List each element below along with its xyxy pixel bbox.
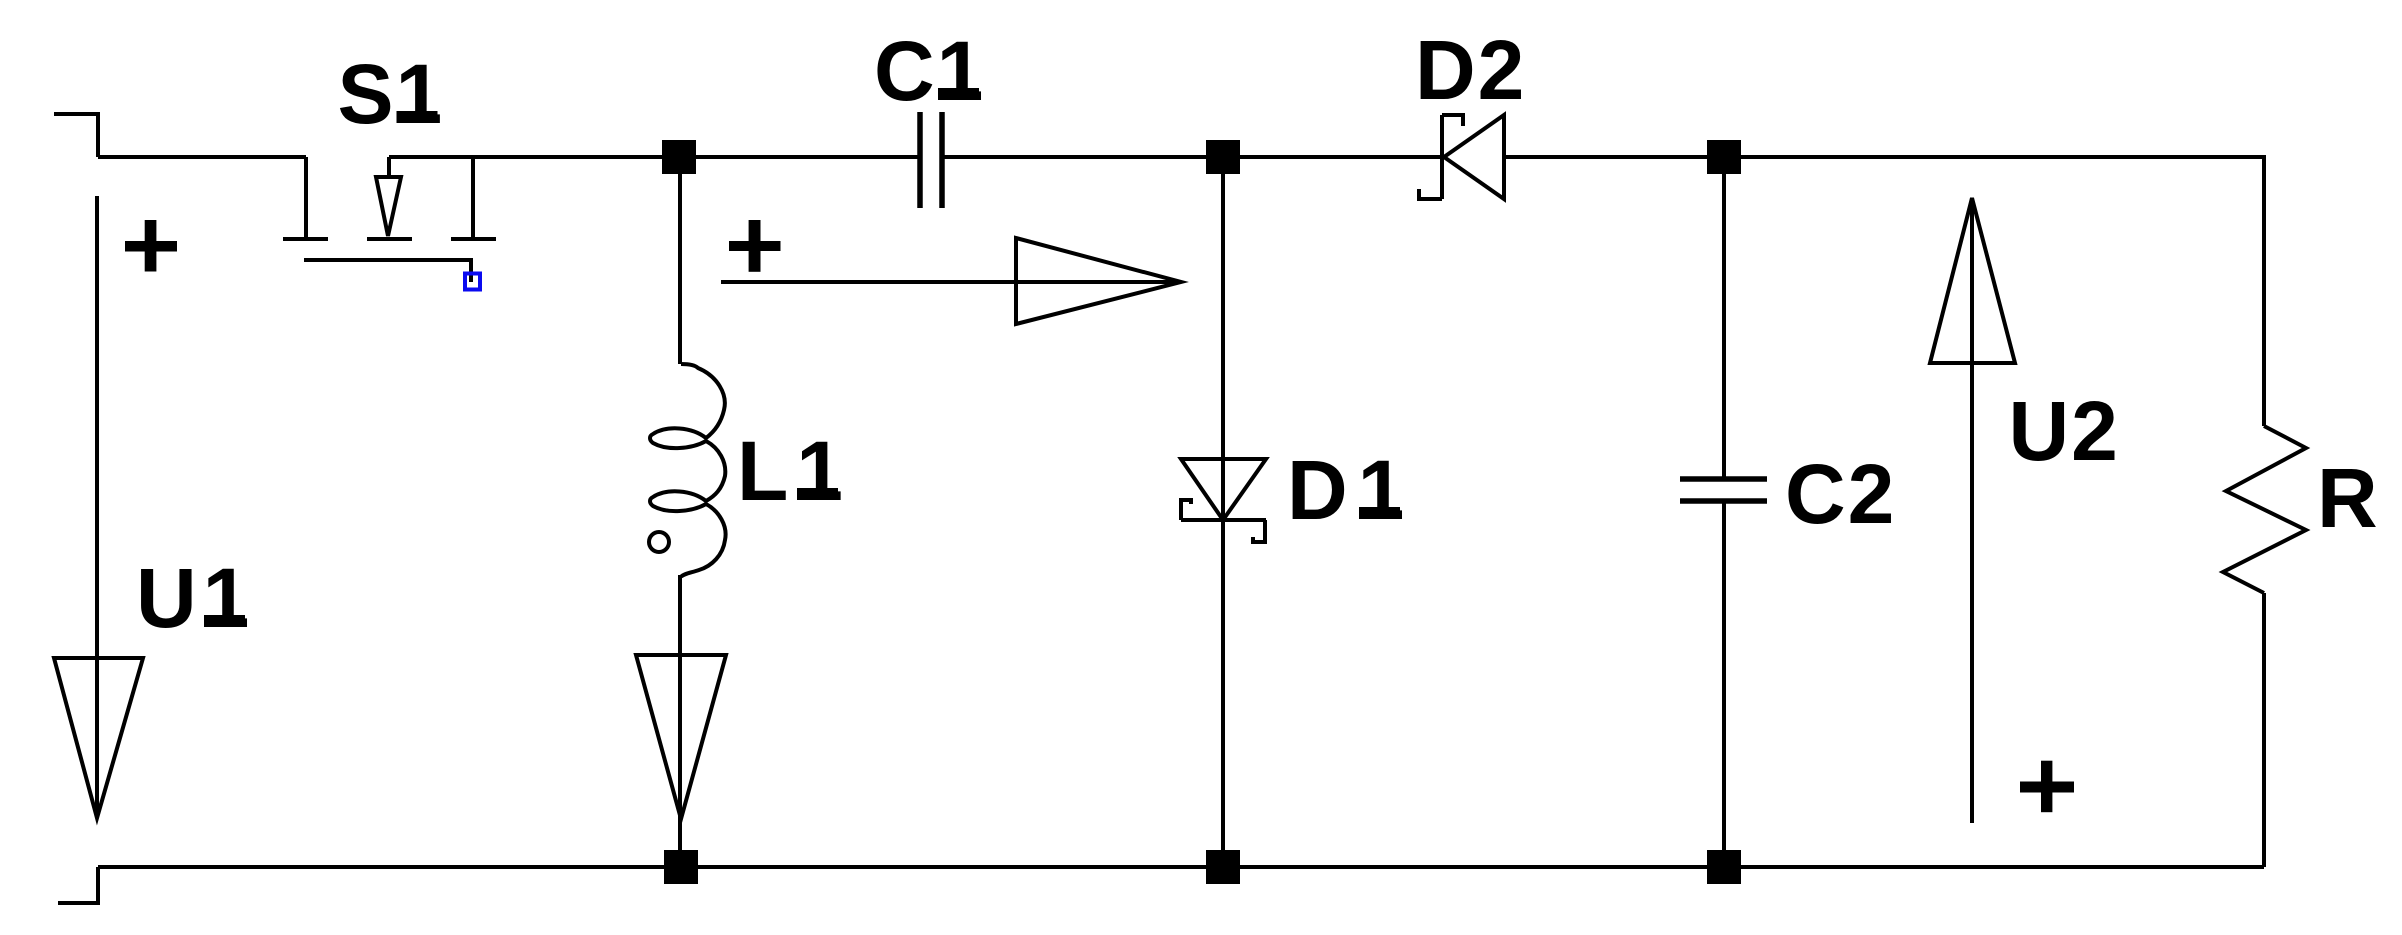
wire (node B down through D1 to bottom rail) <box>1221 157 1225 867</box>
current arrow (L1 current, down) <box>636 655 726 819</box>
node B (C1/D1/D2 junction) <box>1206 140 1240 174</box>
plus sign (U1 polarity) <box>125 241 177 252</box>
svg-text:C1: C1 <box>874 24 985 118</box>
current arrow (C1 branch, right) <box>721 238 1181 324</box>
wire (node A down to L1) <box>678 157 682 364</box>
wire (C1 right plate to node B) <box>942 155 1442 159</box>
inductor L1 (coil) <box>649 364 726 577</box>
wire (C2 bottom plate to bottom rail) <box>1722 501 1726 867</box>
resistor R (zigzag) <box>2223 426 2306 593</box>
svg-text:U2: U2 <box>2009 384 2120 478</box>
bottom rail wire <box>98 865 2264 869</box>
wire (R bottom to bottom rail) <box>2262 593 2266 867</box>
capacitor C2 <box>1680 479 1767 501</box>
svg-text:R: R <box>2317 451 2380 545</box>
wire (S1 source to C1 left plate) <box>389 155 920 159</box>
transistor S1 (MOSFET) <box>283 157 496 282</box>
svg-text:D1: D1 <box>1287 443 1414 537</box>
gate port (blue square) <box>465 274 480 290</box>
plus sign (C1 voltage polarity) <box>729 241 781 251</box>
input port terminal (top-left step) <box>54 114 98 157</box>
wire (source U1 + to switch S1 drain) <box>98 155 306 159</box>
plus sign (U2 polarity) <box>2020 782 2074 793</box>
svg-text:L1: L1 <box>737 424 851 518</box>
diode D1 (zener, pointing down) <box>1181 459 1266 542</box>
svg-text:S1: S1 <box>338 47 445 141</box>
node A (switch/L1/C1 junction) <box>662 140 696 174</box>
svg-text:U1: U1 <box>136 551 255 645</box>
svg-text:C2: C2 <box>1785 447 1896 541</box>
node D (L1 bottom junction) <box>664 850 698 884</box>
wire (L1 to bottom rail through current arrow) <box>678 575 682 867</box>
voltage arrow U1 (down) <box>54 196 143 818</box>
diode D2 (zener, pointing left) <box>1419 115 1504 199</box>
capacitor C1 <box>920 112 942 208</box>
voltage arrow U2 (up) <box>1930 198 2015 823</box>
node F (C2 bottom junction) <box>1707 850 1741 884</box>
node E (D1 bottom junction) <box>1206 850 1240 884</box>
wire (D2 anode to node C and right corner) <box>1504 157 2264 426</box>
node C (D2/C2/R junction) <box>1707 140 1741 174</box>
wire (node C down to C2 top plate) <box>1722 157 1726 479</box>
output port terminal (bottom-left step) <box>58 867 98 903</box>
svg-text:D2: D2 <box>1415 23 1526 117</box>
